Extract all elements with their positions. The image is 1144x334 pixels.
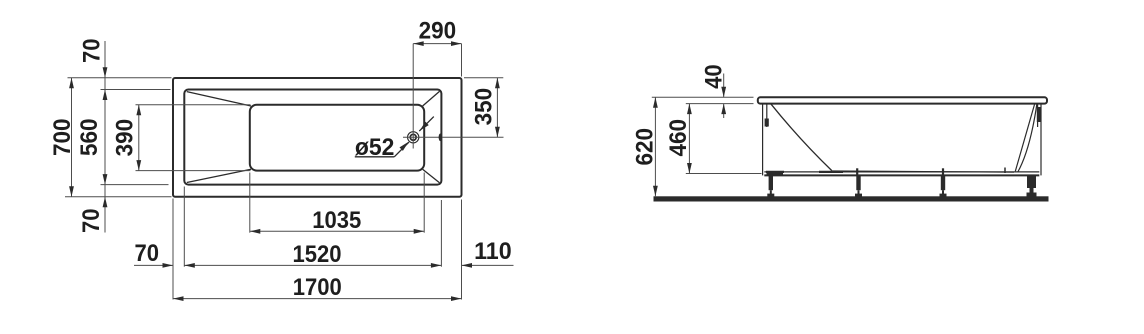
svg-text:620: 620: [632, 128, 659, 166]
svg-text:460: 460: [665, 119, 692, 157]
svg-text:70: 70: [78, 39, 105, 64]
svg-text:1700: 1700: [293, 274, 342, 301]
svg-text:70: 70: [135, 240, 160, 267]
svg-text:700: 700: [49, 118, 76, 156]
svg-text:1520: 1520: [293, 241, 342, 268]
svg-text:290: 290: [419, 17, 457, 44]
svg-text:110: 110: [474, 238, 512, 265]
svg-text:1035: 1035: [312, 207, 361, 234]
svg-text:350: 350: [470, 88, 497, 126]
svg-text:560: 560: [76, 118, 103, 156]
svg-text:390: 390: [111, 119, 138, 157]
svg-text:70: 70: [78, 208, 105, 233]
svg-text:40: 40: [700, 64, 727, 89]
